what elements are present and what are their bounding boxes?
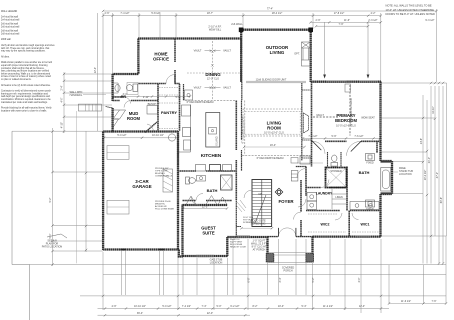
mud hall door [124,101,131,108]
dining/kitchen east opening posts [240,39,242,83]
svg-text:contractor shall confirm that: contractor shall confirm that all lite f… [1,67,45,70]
svg-text:5'-8 1/2": 5'-8 1/2" [151,12,160,15]
svg-text:Walls shown parallel to one an: Walls shown parallel to one another are … [1,61,53,64]
svg-text:4'-0": 4'-0" [61,97,64,102]
svg-text:LOCATION: LOCATION [399,173,412,176]
outdoor living corner posts [239,28,244,33]
svg-text:4'-9": 4'-9" [112,305,117,308]
porch east side wall [311,237,313,255]
svg-text:Verify all door and window rou: Verify all door and window rough opening… [1,44,55,47]
bottom extension lines [103,236,446,313]
svg-text:3'-4": 3'-4" [279,277,282,282]
wic divider wall [348,211,350,237]
left dim vertical x97.5 [97,13,99,131]
svg-text:LAUNDRY: LAUNDRY [316,192,333,196]
svg-text:2x6 stud stud wall: 2x6 stud stud wall [1,25,20,28]
step garage to guest suite [179,250,183,257]
living tray ceiling dashed [243,109,302,136]
svg-text:wall depth per general design: wall depth per general design specificat… [1,95,51,98]
fixed window niche lower [366,200,375,207]
svg-text:2x4 stud stud wall: 2x4 stud stud wall [1,18,20,21]
garage storage benches [107,146,129,160]
pantry east wall [179,84,181,131]
svg-text:ROOM: ROOM [267,126,281,131]
guest interior dim [183,208,227,210]
svg-text:6" DECORATIVE BEAM: 6" DECORATIVE BEAM [257,157,284,160]
svg-text:WIC2: WIC2 [321,223,330,227]
svg-text:to face of stud or to face of: to face of stud or to face of masonry wh… [1,75,52,78]
mudroom angled garage door wall [145,122,157,133]
garage left wall [102,132,104,251]
wic north wall [306,210,381,212]
wall kitchen east x236 [235,101,237,201]
svg-text:FOYER: FOYER [278,199,294,204]
svg-text:6'-2 1/2": 6'-2 1/2" [230,305,239,308]
garage top step [103,130,113,132]
svg-text:Provide blocking for all wall-: Provide blocking for all wall-mounted it… [1,107,52,110]
hall interior dim [113,96,190,98]
svg-text:10'-0"x13'-0" CLG: 10'-0"x13'-0" CLG [264,132,284,135]
svg-text:BATH: BATH [207,188,218,193]
laundry counter/shelves [332,189,346,209]
svg-text:may vary by the specific frami: may vary by the specific framing conditi… [1,50,46,53]
right dim verticals [423,83,447,264]
svg-text:10'-2 1/2": 10'-2 1/2" [424,170,427,181]
primary south wall [311,140,381,142]
long horizontal extension y264.5 [30,264,447,266]
svg-text:7'-4 1/2": 7'-4 1/2" [120,12,129,15]
toilet alcove walls [328,152,342,167]
beam dashed at living west [244,101,246,156]
svg-text:equal with proper structural b: equal with proper structural blocking. F… [1,64,48,67]
tub bay [381,161,393,194]
porch inner line [268,253,313,263]
svg-text:21'-0": 21'-0" [428,157,431,163]
svg-text:18'-4 1/2": 18'-4 1/2" [272,12,283,15]
front wall east of porch [313,235,382,237]
svg-text:maintained per code at all sta: maintained per code at all stairs and la… [1,101,48,104]
svg-text:5'-4": 5'-4" [302,305,307,308]
svg-text:7'-9": 7'-9" [339,23,344,26]
mud bench [147,106,158,115]
left dim vertical x86 [85,131,87,252]
window east wing top 2 [360,81,377,83]
svg-text:10'-0" HT. UNLESS NOTED OTHERW: 10'-0" HT. UNLESS NOTED OTHERWISE [386,8,435,12]
svg-text:10'-10 1/2": 10'-10 1/2" [152,134,164,137]
shower X [326,168,347,188]
svg-text:fans, plumbing and fixture loc: fans, plumbing and fixture locations are… [1,70,50,73]
svg-text:FIXED: FIXED [366,162,374,165]
svg-text:77'-4": 77'-4" [267,8,273,11]
beam dashed foyer north [242,155,311,157]
svg-text:SUITE: SUITE [202,231,215,236]
guest suite door arc [191,197,199,205]
svg-text:DOORS TO BE 8'-0" HT. UNLESS N: DOORS TO BE 8'-0" HT. UNLESS NOTED [386,12,435,16]
mud exterior door leaf [106,107,113,109]
guest hall closet doors (bifold) [186,196,227,205]
under stair wall [236,226,241,228]
kitchen south appliances: ovens + ref [196,165,206,172]
long horizontal extension y274.5 [103,274,446,276]
svg-text:8'-2": 8'-2" [253,305,258,308]
dining vault dashed centerline [211,41,213,100]
svg-text:WDW SEAT: WDW SEAT [361,117,375,120]
svg-text:2066 wall: 2066 wall [1,39,11,41]
stairs [252,180,272,227]
kitchen island [206,113,220,148]
window front wall west [237,236,250,238]
pantry shelves [159,88,179,129]
bath east partition [376,141,378,153]
top wall office/dining [138,37,241,39]
garage right wall [177,131,179,250]
left extension lines horizontals [12,74,112,251]
SECTION: outer walls [103,28,392,263]
svg-text:on plan or related documents.: on plan or related documents. [1,78,32,81]
svg-text:4'-0": 4'-0" [358,277,361,282]
svg-text:locations with owner prior to: locations with owner prior to close-in o… [1,109,47,112]
svg-text:11'-6": 11'-6" [344,19,350,22]
svg-text:10'-10 1/2": 10'-10 1/2" [134,305,146,308]
svg-text:11'-2 1/2": 11'-2 1/2" [323,305,333,308]
PR / mudroom left wall [111,74,113,131]
svg-text:2'-9": 2'-9" [316,19,321,22]
top extension lines [103,9,437,131]
bottom dim line row1 [80,295,446,297]
bath cluster north wall at hall [296,166,306,168]
svg-text:7'-4 1/2": 7'-4 1/2" [308,135,317,138]
svg-text:Contractor to verify all dimen: Contractor to verify all dimensioned scr… [1,90,52,93]
primary bedroom doors to bath [313,141,362,156]
svg-text:5'-0 1/2": 5'-0 1/2" [162,305,171,308]
svg-text:BEDROOM: BEDROOM [335,118,357,123]
office south wall [138,83,180,85]
bath door arc [196,194,203,201]
understair closet arcs [240,190,252,208]
svg-text:7'-6": 7'-6" [432,300,437,303]
svg-text:2'-4": 2'-4" [61,85,64,90]
fixed window niche upper [366,154,375,161]
svg-text:All dims.: All dims. [1,55,10,58]
window guest suite south [196,255,214,257]
svg-text:BATH: BATH [359,170,370,175]
free standing tub [381,168,391,192]
svg-text:7'-4": 7'-4" [202,305,207,308]
center bath toilet [186,177,190,184]
mud-garage angled door [147,124,154,132]
dining dashed beam mid [187,72,241,74]
notes block top left [1,10,55,112]
garage interior dim [104,137,178,139]
svg-text:OPT.: OPT. [294,53,300,56]
svg-text:ISLAND: ISLAND [216,136,219,145]
svg-text:12x8 SLIDING DOOR UNIT: 12x8 SLIDING DOOR UNIT [256,79,287,82]
svg-text:3'-1": 3'-1" [123,93,128,96]
right extension lines [381,83,447,236]
svg-text:HANDRAIL: HANDRAIL [70,94,83,97]
svg-text:PANTRY: PANTRY [161,110,177,115]
top dim ticks [102,10,438,28]
window primary east wall [380,100,382,128]
svg-text:11'-6 1/2": 11'-6 1/2" [401,300,411,303]
east wing top wall [311,81,381,83]
office left wall [137,39,139,75]
leader arrows outdoor patio [325,22,368,76]
center bath south wall / guest hall [183,200,233,202]
svg-text:47'-2": 47'-2" [436,172,439,178]
svg-text:REQD BY CODE: REQD BY CODE [230,247,247,249]
svg-text:SHOWER: SHOWER [330,170,341,173]
svg-text:NOTE: ALL WALLS THIS LEVEL TO: NOTE: ALL WALLS THIS LEVEL TO BE [386,4,432,8]
SECTION: interior walls [113,39,381,238]
guest suite right wall [226,237,228,256]
shower enclosure [326,168,347,188]
svg-text:with mfr. These are min. and n: with mfr. These are min. and nominal dim… [1,47,50,50]
PR door [124,97,131,104]
window wic south [355,236,370,238]
outdoor living top wall [241,29,311,31]
entry stoop steps [78,104,101,111]
svg-text:18'-7": 18'-7" [207,12,213,15]
laundry north wall [306,187,347,189]
tub bay inner walls [381,162,392,193]
foyer east wall x301 [300,180,302,237]
outdoor living right wall [310,30,312,83]
bottom right dim row [389,303,446,305]
hall vanity niche [300,156,310,164]
PR toilet [133,84,138,92]
top dim line level3 right [311,21,381,23]
svg-text:7'-4 1/2": 7'-4 1/2" [182,305,191,308]
svg-text:12'-4": 12'-4" [359,305,365,308]
svg-text:WIC1: WIC1 [361,223,370,227]
office door [166,75,175,84]
svg-text:VAULT: VAULT [316,114,324,117]
top dim line level4 right [316,25,368,27]
window seat box [345,84,351,92]
top dim line level2 [103,15,381,17]
hall interior dim row [297,162,323,164]
left dim ticks [51,73,65,266]
vault arrows [205,50,221,89]
svg-text:9'-2": 9'-2" [49,197,52,202]
garage top wall [113,130,178,132]
foyer west wall [235,201,237,238]
SECTION: notes [1,4,435,113]
svg-text:LOCATION: LOCATION [210,262,223,265]
kitchen/bath divider wall [178,170,236,172]
bottom ticks row1 [102,295,447,317]
svg-text:framing per mfr. requirements.: framing per mfr. requirements. Installat… [1,92,49,95]
foyer dim line [242,227,273,229]
front wall door section [268,236,279,238]
svg-text:2x4 stud flat wall: 2x4 stud flat wall [1,16,18,19]
svg-text:FIXED: FIXED [366,208,374,211]
porch side note [230,217,256,249]
living east wall [301,83,303,161]
svg-text:12'-5": 12'-5" [202,205,208,208]
hall doors near foyer [294,169,307,220]
svg-text:12'-0" CLG: 12'-0" CLG [207,78,219,81]
svg-text:BENCH: BENCH [148,103,157,106]
window dining north [202,38,217,40]
svg-text:2'-11": 2'-11" [143,96,149,99]
svg-text:DINING: DINING [205,72,221,77]
svg-text:4'-2": 4'-2" [371,12,376,15]
svg-text:6" DECORATIVE BEAM: 6" DECORATIVE BEAM [242,117,245,144]
svg-text:60'-8": 60'-8" [440,197,443,203]
kitchen west counter [178,105,191,153]
svg-text:2'-3 1/2": 2'-3 1/2" [368,19,377,22]
svg-text:WDW SILL: WDW SILL [209,29,222,32]
svg-text:WALL LEGEND: WALL LEGEND [1,10,18,13]
PR south partition [113,96,124,98]
office east wall [174,39,176,84]
svg-text:17'-8 1/2": 17'-8 1/2" [334,12,345,15]
laundry/bath divider x347 [346,167,348,211]
bedroom beam dashed horizontal [313,116,338,118]
hall linen box [291,171,298,182]
svg-text:PULL DOWN STAIR: PULL DOWN STAIR [155,208,174,211]
hall south wall / mud pantry north wall [113,100,158,102]
window office north [150,38,164,40]
outdoor living left wall [240,30,242,83]
porch pier east [306,254,314,263]
kitchen west wall (garage right upper) [177,131,179,171]
bottom dim line row2 [98,308,390,310]
svg-text:SCREENING: SCREENING [243,222,256,224]
svg-text:5'-6": 5'-6" [176,96,181,99]
left dim vertical x64 [63,72,65,133]
porch west side wall [266,237,268,255]
SECTION: details [77,38,391,264]
guest suite left wall [181,205,183,257]
svg-text:2'-6": 2'-6" [105,12,110,15]
svg-text:VAULT: VAULT [223,50,231,53]
svg-text:10'-4": 10'-4" [278,305,284,308]
window east wing top 1 [326,81,346,83]
svg-text:PORCH: PORCH [283,270,292,273]
bedroom beam dashed vertical [349,85,351,136]
svg-text:5'-0": 5'-0" [217,305,222,308]
left dim vertical x52.5 [52,128,54,266]
living west wall x242 [241,82,243,101]
bath interior dim [303,137,380,139]
svg-text:6" DECORATIVE BEAM: 6" DECORATIVE BEAM [187,101,214,104]
PR sink [115,85,120,92]
svg-text:5'-9": 5'-9" [332,135,337,138]
svg-text:7'-6 1/2": 7'-6 1/2" [354,135,363,138]
eave line left [76,111,78,263]
window office west [138,50,140,64]
svg-text:All beams to be (2) 2x10 unles: All beams to be (2) 2x10 unless noted ot… [1,84,51,87]
hall east wall x306 [305,167,307,197]
svg-text:coordination. Minimum required: coordination. Minimum required clearance… [1,98,51,101]
svg-text:KITCHEN: KITCHEN [201,153,222,158]
svg-text:5'-0 1/2": 5'-0 1/2" [117,134,126,137]
front wall left of porch [227,236,267,238]
center bath sink [197,176,206,182]
guest suite bottom wall [183,255,229,257]
front door double w sidelights [279,228,296,237]
svg-text:4'-10": 4'-10" [61,122,64,128]
svg-text:16'-4": 16'-4" [270,144,276,147]
bottom dim line row3 [98,314,251,316]
svg-text:11'-10": 11'-10" [432,106,435,114]
svg-text:OFFICE: OFFICE [153,57,169,62]
svg-text:2x6 WALL: 2x6 WALL [231,23,243,26]
svg-text:PATIO LOCATION: PATIO LOCATION [42,246,63,249]
svg-text:LINEN: LINEN [335,196,343,199]
decorative beam dashed kitchen/dining [185,99,236,101]
svg-text:LIVING: LIVING [270,50,285,55]
svg-text:6" DECORATIVE BEAM: 6" DECORATIVE BEAM [350,99,353,126]
svg-text:22'-0": 22'-0" [207,312,213,315]
step wall office to PR [113,73,139,75]
svg-text:12'-4": 12'-4" [94,67,97,73]
attic ladder [163,169,173,192]
sliding door outdoor living [246,81,306,83]
hall beverage cabinet [185,90,193,100]
center bath shower [221,175,233,190]
bath vanity east [350,202,379,210]
toilet between doors [331,163,338,167]
svg-text:5'-2": 5'-2" [312,277,315,282]
fireplace media wall [304,113,309,133]
svg-text:GARAGE: GARAGE [132,184,151,189]
svg-text:2x8 stud stud wall: 2x8 stud stud wall [1,33,20,36]
washer dryer [307,193,317,202]
svg-text:14'-8": 14'-8" [420,138,423,144]
svg-text:6'-8": 6'-8" [248,277,251,282]
svg-text:VAULT: VAULT [194,50,202,53]
primary west wall [311,82,313,167]
svg-text:9'-3 1/2": 9'-3 1/2" [425,19,434,22]
svg-text:2x8 stud flat wall: 2x8 stud flat wall [1,30,18,33]
garage bottom wall [103,248,179,250]
chase connectors [302,90,311,158]
living interior dim [244,146,305,148]
garage door jamb marks [121,249,127,251]
svg-text:VAULT: VAULT [223,87,231,90]
mud/pantry divider [157,84,159,131]
east wall above tub bay [379,82,381,162]
right ticks [422,82,444,265]
section diamond marker [275,188,283,196]
svg-text:COMMON WALLS: COMMON WALLS [155,175,173,178]
top dim line overall [103,10,437,12]
garage note blocks [155,168,174,211]
east wall below tub bay [379,194,381,237]
laundry door [321,180,329,188]
guest suite top wall [183,204,228,206]
outdoor fireplace [302,42,311,66]
wic rods dashed [308,214,379,232]
svg-text:UP: UP [258,193,262,196]
svg-text:VAULT: VAULT [194,87,202,90]
porch pier west [266,254,274,263]
svg-text:ROOM: ROOM [127,116,141,121]
svg-text:AT PORCH: AT PORCH [253,249,266,252]
svg-text:36'-4": 36'-4" [137,312,143,315]
site boundary left [12,131,30,320]
hall east wall2 [183,84,185,101]
water heater [168,134,175,141]
svg-text:before proceeding. Walls p.o.: before proceeding. Walls p.o. to be dime… [1,72,51,75]
svg-text:2x6 stud flat wall: 2x6 stud flat wall [1,23,18,26]
